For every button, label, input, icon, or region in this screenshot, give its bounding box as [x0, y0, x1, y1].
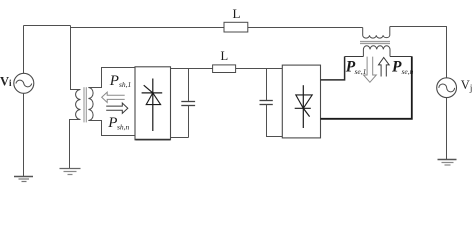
arrow Psh,1 (left)	[102, 92, 125, 102]
wire series loop bottom	[321, 56, 412, 118]
wire right rail top	[446, 27, 448, 78]
svg-text:P: P	[109, 73, 119, 89]
thyristor Q2	[302, 85, 304, 128]
svg-text:se,n: se,n	[402, 67, 414, 76]
inductor L2 (middle)	[213, 65, 236, 73]
arrow Pse,n (up)	[379, 58, 390, 77]
inductor L1 (top)	[224, 22, 248, 32]
wire top bus left segment	[24, 25, 71, 27]
svg-text:sh,n: sh,n	[117, 123, 130, 132]
wire top bus right segment	[390, 26, 447, 28]
wire top bus middle segment	[71, 26, 363, 28]
ground left	[14, 176, 33, 178]
wire secondary top to box1	[88, 68, 135, 88]
converter box U1	[135, 67, 171, 140]
source Vi	[14, 73, 34, 93]
transformer T2 core	[360, 41, 390, 43]
ground right	[438, 159, 457, 161]
transformer T1 primary winding	[76, 90, 81, 120]
wire box1 bottom to capacitor C1	[171, 137, 189, 139]
ground shunt transformer	[60, 168, 81, 170]
node junction left rail top	[23, 26, 25, 74]
capacitor C1	[188, 69, 190, 102]
wire left rail bottom	[23, 93, 25, 176]
arrow Pse,1 (down)	[364, 57, 377, 83]
wire box1 to L	[171, 68, 213, 70]
wire secondary bottom to box1	[88, 121, 135, 136]
wire primary to ground	[70, 120, 81, 169]
wire junction to box2	[267, 68, 283, 70]
svg-text:L: L	[233, 6, 241, 21]
transformer T2 primary winding	[363, 27, 390, 39]
wire L2 to junction	[213, 68, 267, 70]
transformer T1 secondary winding	[88, 88, 93, 121]
thyristor Q1	[152, 79, 154, 132]
svg-text:P: P	[107, 115, 117, 131]
wire shunt branch rail	[71, 28, 81, 90]
svg-text:L: L	[221, 49, 229, 63]
wire right rail bottom	[446, 98, 448, 159]
transformer T1 core	[83, 87, 85, 122]
source Vj	[437, 78, 457, 98]
wire box2 upper right to series secondary	[321, 57, 345, 80]
svg-text:Vj: Vj	[461, 78, 473, 93]
transformer T2 secondary winding	[363, 46, 390, 57]
svg-text:Vi: Vi	[0, 75, 12, 89]
converter box U2	[282, 65, 320, 138]
arrow Psh,n (right)	[106, 103, 128, 113]
capacitor C2	[266, 69, 268, 101]
svg-text:P: P	[392, 58, 402, 75]
svg-text:sh,1: sh,1	[119, 80, 131, 89]
